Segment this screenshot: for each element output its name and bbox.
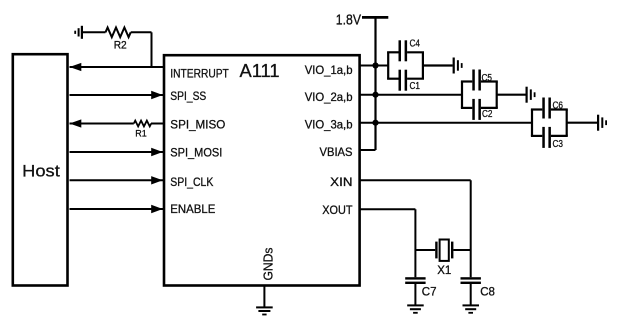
svg-text:SPI_MISO: SPI_MISO [170,118,225,132]
svg-text:XOUT: XOUT [322,203,353,217]
svg-text:C8: C8 [480,286,495,298]
svg-text:A111: A111 [240,61,280,81]
svg-text:C2: C2 [482,109,493,120]
svg-text:SPI_CLK: SPI_CLK [170,175,213,189]
svg-text:R2: R2 [114,39,127,51]
svg-text:C4: C4 [410,38,421,49]
svg-text:SPI_SS: SPI_SS [170,89,206,103]
svg-text:VBIAS: VBIAS [320,145,353,159]
svg-text:X1: X1 [437,265,451,277]
svg-text:VIO_3a,b: VIO_3a,b [305,118,353,132]
svg-text:Host: Host [22,162,60,181]
svg-text:SPI_MOSI: SPI_MOSI [170,146,222,160]
svg-text:GNDs: GNDs [261,247,276,280]
svg-text:VIO_1a,b: VIO_1a,b [305,63,353,77]
svg-text:C6: C6 [553,100,564,111]
svg-text:C5: C5 [482,73,493,84]
svg-text:1.8V: 1.8V [336,12,361,29]
svg-text:C1: C1 [410,81,421,92]
svg-text:C7: C7 [422,286,437,298]
svg-text:XIN: XIN [330,175,352,189]
svg-text:R1: R1 [135,128,147,138]
svg-text:VIO_2a,b: VIO_2a,b [305,90,353,104]
svg-text:INTERRUPT: INTERRUPT [170,66,229,80]
svg-text:C3: C3 [553,139,564,150]
svg-text:ENABLE: ENABLE [170,202,215,216]
